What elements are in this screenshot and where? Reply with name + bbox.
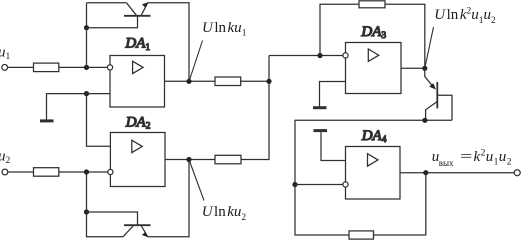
wire u1 terminal to R1 <box>8 66 34 68</box>
svg-text:Ulnku2: Ulnku2 <box>202 204 247 223</box>
wire R6 to DA4 inverting node <box>295 185 349 236</box>
node junction at inverting input of DA1 <box>84 65 89 70</box>
svg-text:DA1: DA1 <box>124 36 150 53</box>
wire R1 to DA1 inverting input <box>59 66 108 68</box>
op-amp DA2 <box>108 133 165 187</box>
resistor R2 <box>34 168 59 177</box>
op-amp DA4 <box>343 147 400 200</box>
wire top left to Q1 collector <box>87 2 127 4</box>
label U ln k2u1u2 <box>434 7 496 26</box>
node junction DA1 output <box>186 79 191 84</box>
node junction Q3 collector to rail <box>422 118 427 123</box>
label u1 <box>0 44 11 62</box>
node junction summing of R3 R4 <box>266 79 271 84</box>
wire ground node down to DA2 non-inverting <box>87 94 111 147</box>
node junction DA3 feedback tap <box>317 53 322 58</box>
label U ln ku1 <box>202 20 247 39</box>
wire feedback vertical left (collector/base to DA1 input) <box>86 3 88 68</box>
ground ground3 inverted <box>314 131 346 161</box>
label u_vyh = k2u1u2 <box>432 148 512 168</box>
node u1 input terminal <box>2 65 8 71</box>
wire feedback down-left to Q2 collector <box>87 212 124 237</box>
ground ground1 <box>40 94 87 121</box>
wire u2 terminal to R2 <box>8 171 34 173</box>
svg-text:DA2: DA2 <box>125 114 151 131</box>
resistor R5 <box>359 1 385 8</box>
wire bottom rail under DA3 <box>295 120 452 184</box>
transistor Q1 <box>124 2 151 15</box>
wire R2 to DA2 inverting input <box>59 171 108 173</box>
svg-text:u2: u2 <box>0 148 11 166</box>
node junction base wire Q1 <box>84 25 89 30</box>
wire DA3 output <box>401 67 425 69</box>
wire to DA4 inverting input <box>295 184 343 186</box>
label U ln ku2 <box>202 204 247 223</box>
wire DA4 feedback down <box>374 173 426 235</box>
resistor R1 <box>34 63 59 72</box>
wire R4 up to summing node <box>241 56 269 160</box>
label DA1 <box>124 36 150 53</box>
node junction at inverting input of DA2 <box>84 169 89 174</box>
node u2 input terminal <box>2 169 8 175</box>
transistor Q3 <box>425 68 452 120</box>
wire summing node to DA3 inverting input <box>269 55 343 57</box>
node junction DA3 output <box>422 66 427 71</box>
wire DA1 output to R3 <box>165 80 216 82</box>
wire to DA1 non-inverting input <box>87 93 111 95</box>
wire pointer to label U ln ku2 <box>190 161 205 201</box>
label DA4 <box>361 128 387 145</box>
node output terminal <box>514 170 520 176</box>
node junction DA4 output <box>423 170 428 175</box>
label DA2 <box>125 114 151 131</box>
svg-text:uвых=k2u1u2: uвых=k2u1u2 <box>432 148 512 168</box>
label DA3 <box>360 24 386 41</box>
wire DA2 input node down to Q2 base node <box>86 172 88 212</box>
wire Q2 emitter to DA2 output <box>148 160 190 237</box>
wire Q1 emitter to DA1 output <box>148 3 190 82</box>
svg-text:DA3: DA3 <box>360 24 386 41</box>
op-amp DA3 <box>343 43 401 94</box>
node junction base wire Q2 <box>84 209 89 214</box>
op-amp DA1 <box>107 56 164 108</box>
transistor Q2 <box>123 225 151 237</box>
wire pointer to label U ln ku1 <box>190 41 203 81</box>
wire DA4 output to terminal <box>400 172 514 174</box>
wire R3 to summing node <box>241 80 269 82</box>
wire DA3 feedback up <box>320 4 359 55</box>
node junction DA1 non-inverting <box>84 91 89 96</box>
svg-text:DA4: DA4 <box>361 128 387 145</box>
resistor R6 <box>349 231 374 239</box>
wire Q2 base to feedback line <box>87 212 138 225</box>
svg-text:Ulnk2u1u2: Ulnk2u1u2 <box>434 7 496 26</box>
label u2 <box>0 148 11 166</box>
wire pointer to label U ln k2u1u2 <box>425 27 434 68</box>
wire R5 to DA3 output <box>385 4 425 68</box>
node junction DA4 inverting <box>292 182 297 187</box>
ground ground2 <box>313 82 346 108</box>
resistor R4 <box>215 155 241 164</box>
wire DA2 output to R4 <box>165 159 215 161</box>
wire Q1 base to feedback line <box>87 16 138 27</box>
resistor R3 <box>215 77 241 86</box>
svg-text:u1: u1 <box>0 44 11 62</box>
svg-text:Ulnku1: Ulnku1 <box>202 20 247 39</box>
node junction DA2 output <box>186 157 191 162</box>
